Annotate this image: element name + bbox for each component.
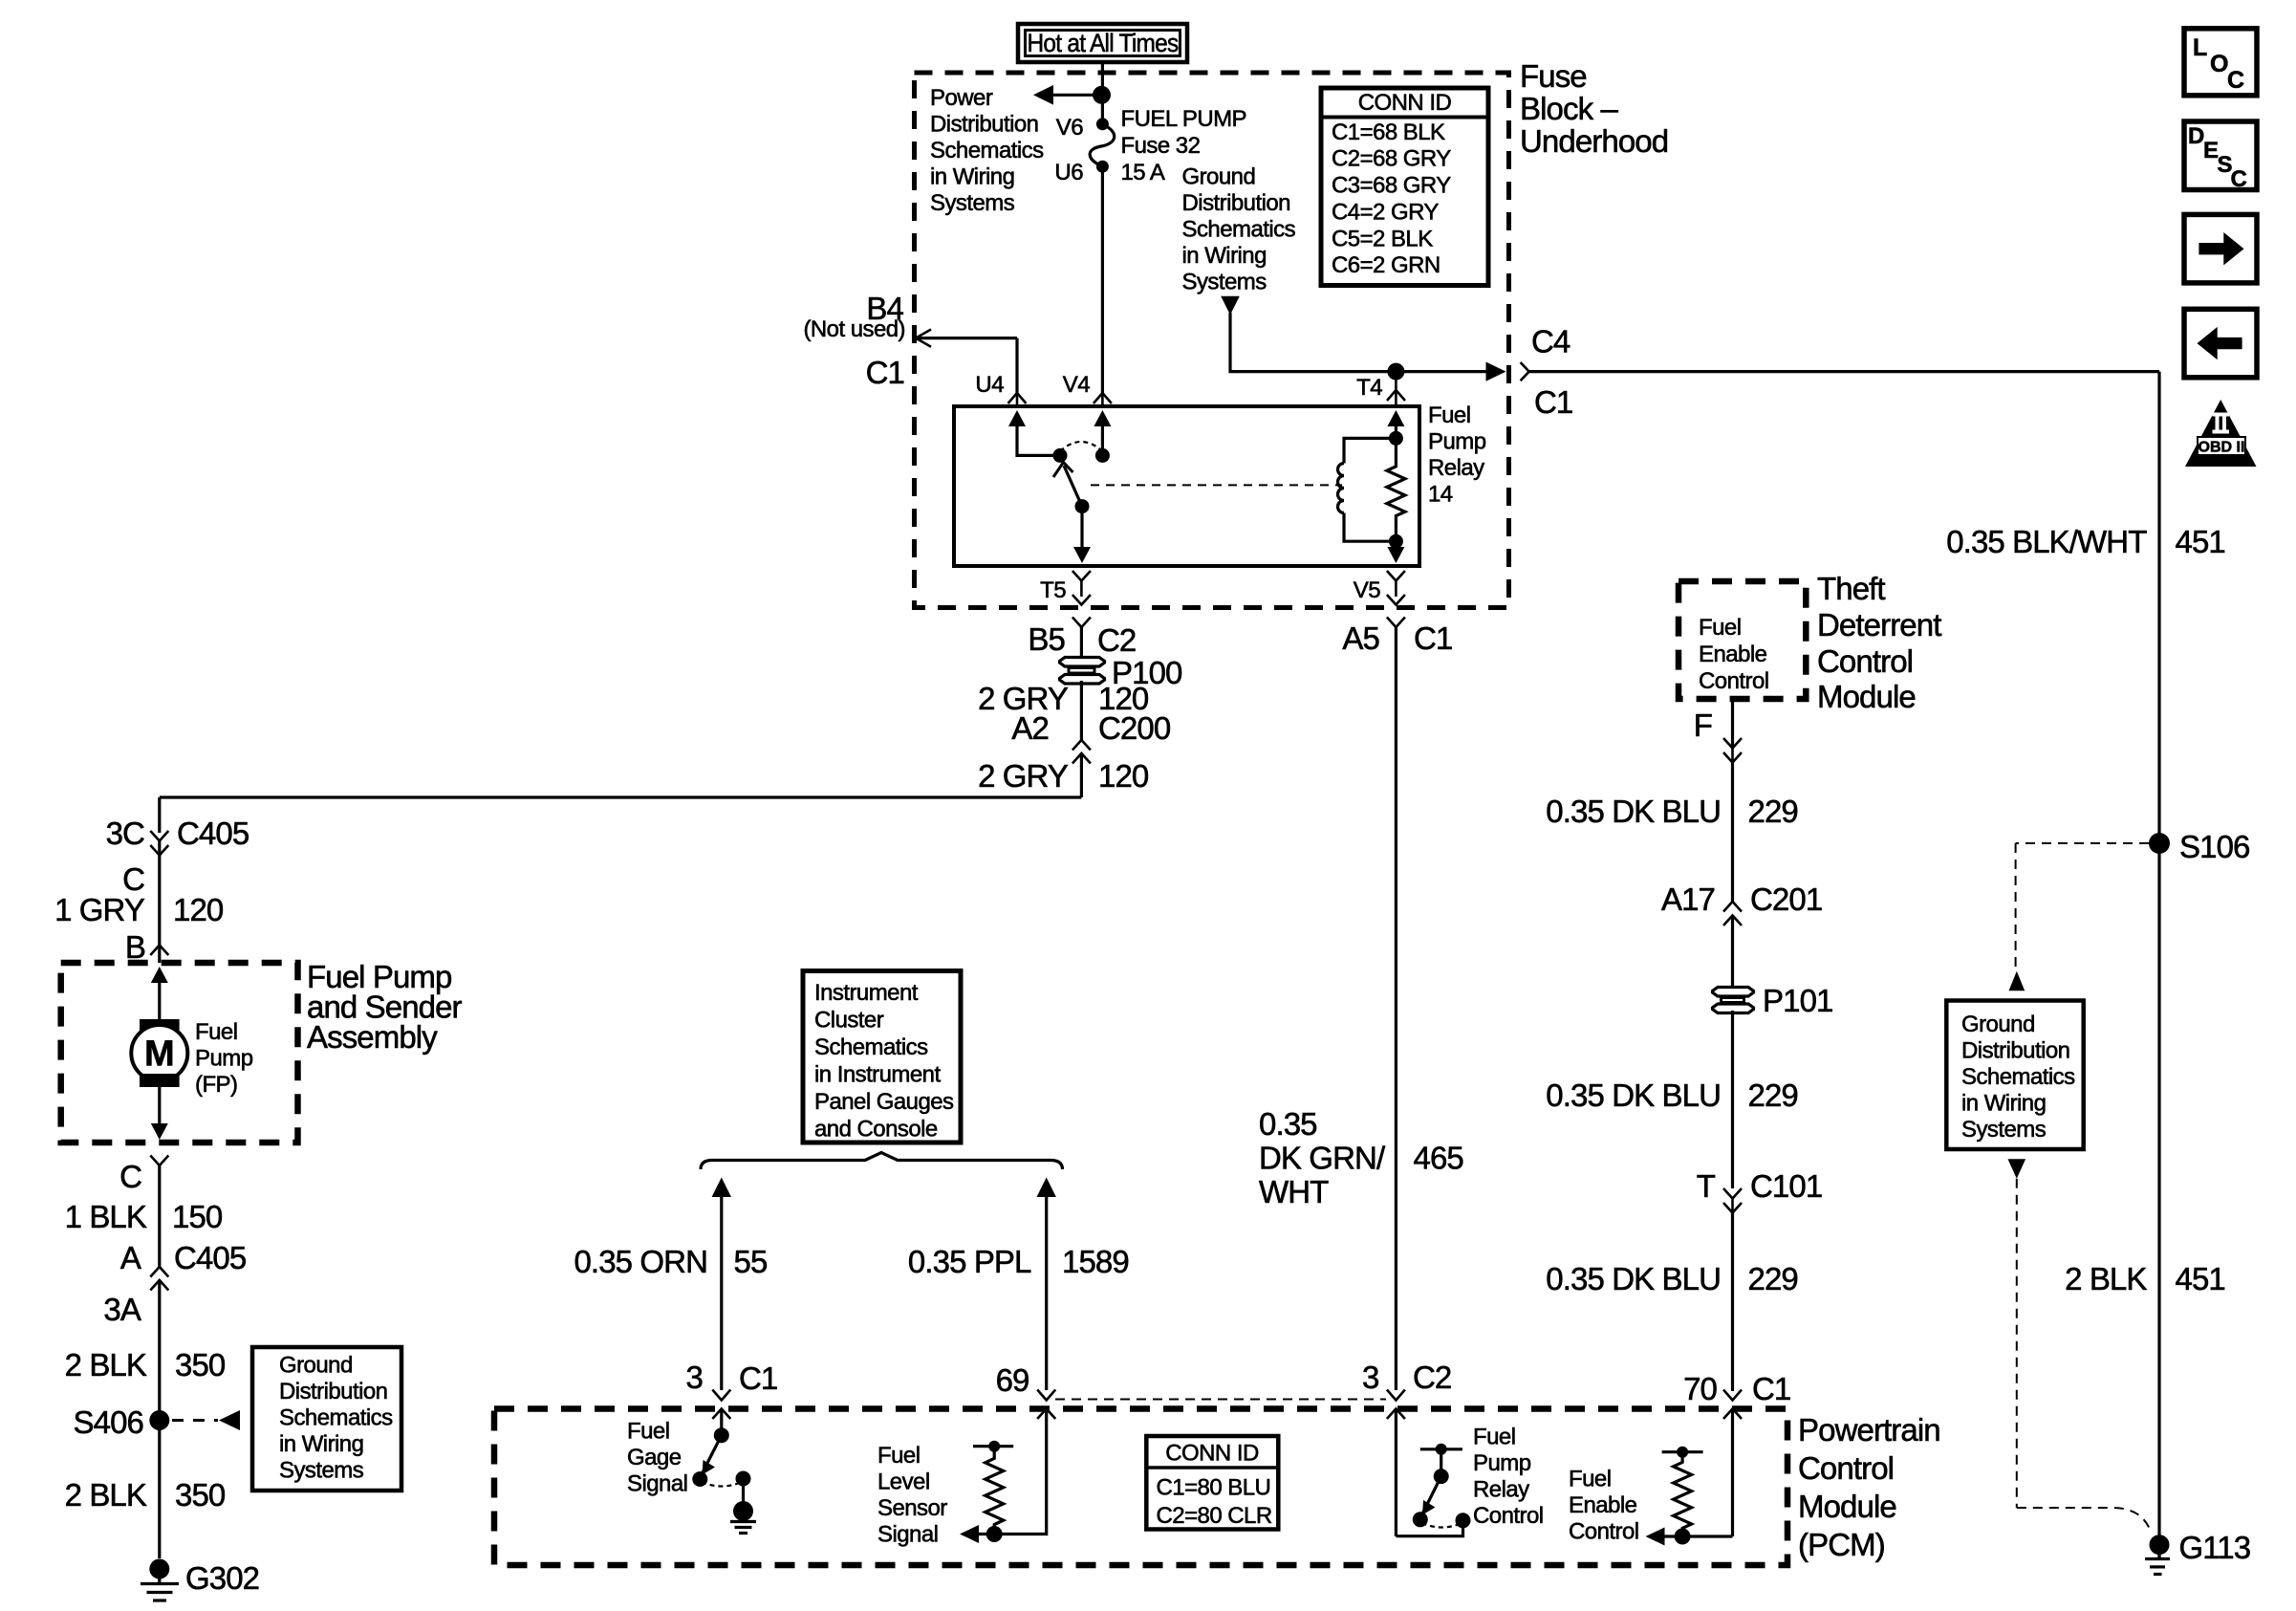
wire 70 pin to fuel enable resistor with left arrow — [1646, 1528, 1733, 1546]
svg-text:Power: Power — [930, 85, 993, 111]
svg-text:WHT: WHT — [1259, 1174, 1329, 1209]
svg-text:Distribution: Distribution — [1961, 1038, 2069, 1064]
svg-text:FUEL PUMP: FUEL PUMP — [1121, 106, 1247, 132]
CONN ID table (PCM) — [1146, 1436, 1278, 1530]
svg-text:0.35 ORN: 0.35 ORN — [574, 1244, 707, 1279]
svg-text:Schematics: Schematics — [279, 1405, 393, 1431]
svg-text:T: T — [1697, 1168, 1716, 1204]
ground symbol inside PCM at fuel gage switch — [730, 1479, 756, 1534]
connector C405 pin 3C/C chevrons — [106, 816, 249, 963]
svg-text:U4: U4 — [975, 372, 1004, 398]
connector C chevron below fuel pump box — [119, 1156, 168, 1268]
svg-text:D: D — [2188, 123, 2204, 149]
svg-text:Schematics: Schematics — [1961, 1064, 2075, 1090]
connector C200 chevrons — [1011, 710, 1170, 797]
svg-text:Systems: Systems — [279, 1458, 364, 1484]
svg-text:L: L — [2193, 34, 2207, 61]
PCM powertrain control module dashed box — [494, 1409, 1787, 1566]
svg-text:P101: P101 — [1763, 983, 1832, 1018]
connector male chevron pin 70 C1 inside PCM — [1723, 1409, 1742, 1537]
svg-text:Signal: Signal — [627, 1471, 687, 1497]
fuel pump and sender assembly dashed box — [61, 963, 298, 1143]
svg-text:G113: G113 — [2179, 1530, 2251, 1565]
svg-text:C1: C1 — [866, 355, 904, 390]
svg-text:Cluster: Cluster — [814, 1008, 884, 1034]
svg-text:Relay: Relay — [1428, 455, 1484, 481]
svg-text:Fuse 32: Fuse 32 — [1121, 133, 1201, 159]
svg-text:C6=2 GRN: C6=2 GRN — [1332, 252, 1440, 278]
svg-text:14: 14 — [1428, 482, 1453, 508]
svg-text:150: 150 — [172, 1199, 223, 1234]
label "Fuel Pump Relay 14" — [1428, 403, 1486, 508]
svg-text:Level: Level — [877, 1469, 930, 1495]
grommet P101 — [1713, 983, 1833, 1018]
connector male chevron pin 3 C1 inside PCM — [712, 1409, 730, 1436]
connector C101 pin T chevrons — [1697, 1168, 1823, 1391]
svg-text:C405: C405 — [177, 816, 249, 851]
svg-text:Control: Control — [1473, 1503, 1544, 1529]
svg-text:V5: V5 — [1354, 577, 1380, 603]
svg-text:C: C — [2231, 166, 2247, 192]
svg-text:451: 451 — [2176, 524, 2225, 559]
svg-text:0.35 BLK/WHT: 0.35 BLK/WHT — [1946, 524, 2147, 559]
icon OBD II triangle — [2185, 400, 2257, 467]
svg-text:Control: Control — [1569, 1519, 1639, 1545]
wire C4 to right column — [1529, 370, 2159, 373]
svg-text:Pump: Pump — [1473, 1450, 1531, 1476]
switch fuel gage signal in PCM — [692, 1427, 750, 1487]
svg-text:Instrument: Instrument — [814, 980, 919, 1006]
ground distribution reference triangle — [1221, 296, 1240, 315]
node relay coil bottom — [1389, 534, 1403, 549]
svg-text:S106: S106 — [2179, 829, 2249, 864]
svg-text:Fuel: Fuel — [627, 1419, 670, 1445]
brace under instrument cluster box — [701, 1153, 1063, 1170]
label box "Ground Distribution Schematics in Wiring Systems" (left) — [252, 1347, 401, 1491]
svg-text:A5: A5 — [1342, 620, 1379, 656]
svg-text:Hot at All Times: Hot at All Times — [1028, 29, 1179, 57]
relay mechanical link dashed — [1091, 484, 1342, 486]
svg-text:C1: C1 — [1534, 384, 1572, 420]
svg-text:0.35 DK BLU: 0.35 DK BLU — [1546, 1261, 1721, 1296]
svg-text:C200: C200 — [1098, 710, 1171, 746]
label "Fuse Block - Underhood" — [1520, 58, 1668, 159]
relay pin V4 internal arrow and NO contact — [1094, 410, 1111, 463]
svg-text:Fuel: Fuel — [1428, 403, 1471, 428]
svg-text:Underhood: Underhood — [1520, 123, 1668, 159]
svg-text:A: A — [120, 1240, 141, 1275]
connector B5/C2 chevron below fuse block — [1028, 618, 1136, 659]
svg-text:15 A: 15 A — [1121, 160, 1165, 185]
thin dashed connector line 69 to C2 — [1055, 1399, 1386, 1401]
svg-text:in Instrument: in Instrument — [814, 1062, 941, 1088]
svg-text:OBD II: OBD II — [2199, 440, 2245, 456]
icon left arrow box — [2184, 309, 2257, 378]
wire P100 to C200 with label 2 GRY 120 — [978, 681, 1149, 740]
svg-text:(FP): (FP) — [195, 1072, 237, 1098]
svg-text:in Wiring: in Wiring — [1182, 243, 1267, 269]
node T4 junction — [1387, 363, 1404, 381]
relay pin T4 internal arrow — [1387, 410, 1404, 426]
connector V4 chevron — [1063, 372, 1112, 406]
motor M fuel pump (FP) — [131, 1019, 252, 1098]
svg-text:C405: C405 — [174, 1240, 246, 1275]
svg-text:Control: Control — [1817, 643, 1913, 679]
svg-text:C2: C2 — [1413, 1360, 1451, 1395]
label "Power Distribution Schematics in Wiring Systems" — [930, 85, 1044, 216]
svg-text:Panel Gauges: Panel Gauges — [814, 1089, 954, 1115]
CONN ID table (fuse block) — [1321, 88, 1488, 286]
svg-text:Fuel: Fuel — [195, 1019, 238, 1045]
svg-text:350: 350 — [175, 1477, 226, 1513]
svg-text:B5: B5 — [1028, 621, 1065, 657]
svg-text:F: F — [1694, 708, 1712, 743]
label box "Instrument Cluster Schematics in Instrument Panel Gauges and Console" — [803, 971, 961, 1143]
connector C4 arrow through fuse block border — [1486, 324, 1573, 421]
label 1 GRY 120 — [54, 892, 224, 927]
svg-text:Fuel: Fuel — [1473, 1425, 1516, 1450]
dashed reference path from ground distribution box to G113 — [2008, 1159, 2152, 1532]
wire A5 to PCM pin 3 C2 — [1395, 627, 1397, 1390]
svg-text:Assembly: Assembly — [307, 1019, 438, 1055]
svg-text:3: 3 — [686, 1360, 703, 1395]
svg-text:C5=2 BLK: C5=2 BLK — [1332, 227, 1433, 252]
svg-text:1 BLK: 1 BLK — [65, 1199, 147, 1234]
svg-text:3: 3 — [1362, 1360, 1378, 1395]
svg-text:in Wiring: in Wiring — [1961, 1091, 2046, 1117]
svg-text:T5: T5 — [1040, 577, 1066, 603]
svg-text:C1: C1 — [1752, 1371, 1790, 1406]
svg-text:in Wiring: in Wiring — [930, 164, 1014, 190]
icon DESC box — [2184, 121, 2257, 192]
svg-text:1589: 1589 — [1062, 1244, 1129, 1279]
label "Powertrain Control Module (PCM)" — [1798, 1412, 1940, 1562]
svg-text:C201: C201 — [1750, 882, 1822, 917]
label 1 BLK 150 — [65, 1199, 223, 1234]
ground distribution reference dashed arrow at S406 — [172, 1410, 240, 1430]
svg-text:C: C — [2227, 67, 2244, 94]
label "Fuel Level Sensor Signal" — [877, 1443, 947, 1548]
wire fuel gage signal 0.35 ORN 55 with arrow to cluster — [574, 1178, 767, 1391]
svg-text:Module: Module — [1817, 679, 1916, 714]
svg-text:C1: C1 — [739, 1361, 777, 1396]
svg-text:Pump: Pump — [195, 1046, 253, 1072]
connector U4 chevron — [975, 372, 1026, 406]
wire triangle down to T4 feed — [1230, 313, 1499, 372]
svg-text:C1=80 BLU: C1=80 BLU — [1157, 1475, 1271, 1501]
svg-text:V4: V4 — [1063, 372, 1090, 398]
svg-text:Systems: Systems — [930, 190, 1015, 216]
label 2 BLK 451 — [2065, 1261, 2225, 1296]
theft deterrent control module dashed box — [1679, 581, 1806, 699]
svg-text:Systems: Systems — [1961, 1117, 2047, 1143]
svg-text:CONN ID: CONN ID — [1358, 90, 1452, 116]
resistor fuel enable control in PCM — [1662, 1447, 1703, 1536]
label "Fuel Enable Control" (theft box) — [1699, 615, 1769, 694]
label 2 BLK 350 (lower) — [65, 1477, 226, 1513]
connector C201 pin A17 chevrons — [1661, 882, 1822, 988]
connector PCM pin 3 C1 chevron — [686, 1360, 778, 1401]
svg-text:G302: G302 — [185, 1560, 259, 1596]
svg-text:(PCM): (PCM) — [1798, 1527, 1885, 1562]
arrow out of fuel pump box — [151, 1087, 168, 1140]
icon LOC box — [2184, 29, 2257, 96]
svg-text:A17: A17 — [1661, 882, 1715, 917]
svg-text:55: 55 — [734, 1244, 768, 1279]
connector T4 chevron into relay — [1356, 372, 1405, 406]
svg-text:C3=68 GRY: C3=68 GRY — [1332, 173, 1451, 199]
label "Fuel Pump and Sender Assembly" — [307, 959, 463, 1055]
svg-text:Enable: Enable — [1569, 1492, 1637, 1518]
node S406 splice — [74, 1404, 170, 1440]
svg-text:Control: Control — [1699, 668, 1769, 694]
svg-text:2 GRY: 2 GRY — [978, 758, 1069, 794]
svg-text:Enable: Enable — [1699, 642, 1767, 667]
connector V5 chevrons at fuse block bottom — [1354, 571, 1405, 605]
svg-text:C4=2 GRY: C4=2 GRY — [1332, 200, 1439, 226]
label 0.35 DK BLU 229 (lower) — [1546, 1261, 1798, 1296]
relay switch blade with arrow — [1053, 463, 1091, 564]
svg-text:Schematics: Schematics — [814, 1034, 928, 1060]
fuse F32 FUEL PUMP 15A — [1054, 106, 1246, 185]
svg-text:Pump: Pump — [1428, 429, 1486, 455]
svg-text:C101: C101 — [1750, 1168, 1822, 1204]
svg-text:465: 465 — [1414, 1141, 1463, 1176]
wire down from 2 GRY feed to C405 — [158, 797, 161, 833]
svg-text:Theft: Theft — [1817, 571, 1885, 606]
connector B chevron at fuel pump assembly — [125, 929, 168, 965]
svg-text:Module: Module — [1798, 1489, 1896, 1524]
svg-text:120: 120 — [173, 892, 224, 927]
ground G113 — [2145, 1530, 2250, 1575]
node power distribution tap with left arrow — [1033, 85, 1111, 105]
svg-text:S406: S406 — [74, 1404, 143, 1440]
svg-text:Schematics: Schematics — [1182, 217, 1296, 243]
wire C200 down and left to fuel pump circuit, label 2 GRY 120 — [160, 758, 1149, 797]
svg-text:DK GRN/: DK GRN/ — [1259, 1141, 1386, 1176]
svg-text:O: O — [2210, 51, 2228, 77]
connector male chevron pin 3 C2 inside PCM — [1387, 1409, 1405, 1536]
connector PCM pin 70 C1 chevron — [1683, 1371, 1790, 1406]
svg-text:M: M — [144, 1034, 175, 1075]
svg-text:Relay: Relay — [1473, 1477, 1529, 1503]
resistor fuel level sensor in PCM — [973, 1441, 1013, 1533]
svg-text:Ground: Ground — [1961, 1012, 2035, 1037]
svg-text:CONN ID: CONN ID — [1165, 1441, 1259, 1467]
svg-text:451: 451 — [2176, 1261, 2225, 1296]
svg-text:C1: C1 — [1414, 620, 1452, 656]
label 2 BLK 350 — [65, 1347, 226, 1382]
svg-text:B: B — [125, 929, 145, 965]
svg-text:Block –: Block – — [1520, 91, 1618, 126]
wire fuse to relay pin V4 — [1101, 166, 1104, 393]
svg-text:229: 229 — [1748, 1078, 1798, 1113]
svg-text:2 BLK: 2 BLK — [2065, 1261, 2147, 1296]
arrow into fuel pump box — [151, 967, 168, 983]
svg-text:Distribution: Distribution — [279, 1379, 387, 1404]
svg-text:C1=68 BLK: C1=68 BLK — [1332, 120, 1445, 145]
wire P101 to C101, label 0.35 DK BLU 229 — [1546, 1011, 1798, 1188]
ground G302 — [141, 1559, 259, 1601]
svg-text:3A: 3A — [103, 1292, 141, 1327]
label "Theft Deterrent Control Module" — [1817, 571, 1941, 714]
connector F chevrons below theft module — [1694, 699, 1742, 902]
connector male chevron pin 69 inside PCM — [1037, 1409, 1055, 1534]
svg-text:Gage: Gage — [627, 1445, 682, 1470]
svg-text:(Not used): (Not used) — [803, 316, 905, 342]
svg-text:Sensor: Sensor — [877, 1495, 947, 1521]
label 0.35 DK GRN/WHT 465 — [1259, 1106, 1463, 1209]
svg-text:Fuel: Fuel — [1699, 615, 1742, 641]
svg-text:in Wiring: in Wiring — [279, 1431, 363, 1457]
svg-text:U6: U6 — [1054, 160, 1083, 185]
connector B4 (not used) open arrow — [803, 291, 1017, 393]
svg-text:0.35 DK BLU: 0.35 DK BLU — [1546, 794, 1721, 829]
label "Fuel Enable Control" (PCM) — [1569, 1467, 1639, 1545]
label "Ground Distribution Schematics in Wiring Systems" (top) — [1182, 164, 1296, 295]
svg-text:and Console: and Console — [814, 1117, 938, 1143]
svg-text:Signal: Signal — [877, 1522, 938, 1548]
wire from Hot box into fuse block — [1101, 62, 1104, 123]
svg-text:Ground: Ground — [279, 1353, 353, 1379]
connector PCM pin 69 chevron — [996, 1362, 1056, 1401]
label 0.35 DK BLU 229 (upper) — [1546, 794, 1798, 829]
connector A5/C1 chevron below fuse block — [1342, 618, 1452, 657]
svg-text:3C: 3C — [106, 816, 144, 851]
svg-text:C4: C4 — [1531, 324, 1570, 359]
svg-text:Fuse: Fuse — [1520, 58, 1587, 94]
svg-text:T4: T4 — [1356, 375, 1382, 401]
node relay coil top — [1389, 431, 1403, 446]
svg-text:229: 229 — [1748, 1261, 1798, 1296]
label box "Ground Distribution Schematics in Wiring Systems" (right) — [1946, 1001, 2083, 1150]
wire 69 pin to sensor with left arrow — [960, 1525, 1047, 1543]
grommet P100 — [1060, 655, 1183, 690]
connector T5 chevrons at fuse block bottom — [1040, 571, 1091, 605]
svg-text:Systems: Systems — [1182, 270, 1267, 295]
svg-text:2 BLK: 2 BLK — [65, 1347, 147, 1382]
relay resistor R1 — [1387, 438, 1405, 541]
svg-text:C2=68 GRY: C2=68 GRY — [1332, 146, 1451, 172]
svg-text:A2: A2 — [1011, 710, 1049, 746]
wire right column 451 down to G113 — [2157, 372, 2160, 1558]
relay coil L1 — [1338, 438, 1397, 541]
svg-text:Fuel: Fuel — [1569, 1467, 1612, 1492]
svg-text:70: 70 — [1683, 1371, 1717, 1406]
label "Fuel Gage Signal" — [627, 1419, 687, 1497]
label 0.35 BLK/WHT 451 — [1946, 524, 2225, 559]
svg-text:Distribution: Distribution — [1182, 190, 1290, 216]
svg-text:C: C — [119, 1159, 141, 1194]
svg-text:120: 120 — [1098, 758, 1149, 794]
relay pin V5 internal arrow — [1387, 541, 1404, 563]
label 3 C2 at PCM — [1362, 1360, 1451, 1401]
fuse block - underhood dashed box — [915, 73, 1509, 608]
svg-text:0.35 DK BLU: 0.35 DK BLU — [1546, 1078, 1721, 1113]
svg-text:Schematics: Schematics — [930, 138, 1044, 163]
relay pin U4 internal arrow and wire to pivot — [1008, 410, 1068, 463]
svg-text:Distribution: Distribution — [930, 112, 1038, 138]
svg-text:350: 350 — [175, 1347, 226, 1382]
label "Fuel Pump Relay Control" — [1473, 1425, 1544, 1530]
svg-text:0.35: 0.35 — [1259, 1106, 1317, 1142]
connector C405 pin A/3A chevrons — [103, 1240, 246, 1558]
svg-text:Fuel: Fuel — [877, 1443, 921, 1469]
svg-text:2 BLK: 2 BLK — [65, 1477, 147, 1513]
node S106 splice — [2149, 829, 2249, 864]
switch fuel pump relay control in PCM — [1396, 1444, 1470, 1536]
svg-text:C2: C2 — [1097, 622, 1136, 658]
svg-text:Ground: Ground — [1182, 164, 1256, 190]
svg-text:69: 69 — [996, 1362, 1029, 1398]
relay K1 fuel pump relay box — [954, 406, 1419, 566]
svg-text:1 GRY: 1 GRY — [54, 892, 145, 927]
svg-text:C2=80 CLR: C2=80 CLR — [1157, 1503, 1272, 1529]
dashed reference path from S106 to ground distribution box — [2009, 843, 2150, 991]
icon right arrow box — [2184, 214, 2257, 283]
relay switch dashed arc — [1060, 442, 1102, 451]
svg-text:Powertrain: Powertrain — [1798, 1412, 1940, 1448]
svg-text:Deterrent: Deterrent — [1817, 607, 1941, 642]
label "Hot at All Times" box — [1018, 24, 1187, 62]
wire fuel level sensor signal 0.35 PPL 1589 with arrow to cluster — [908, 1178, 1129, 1391]
svg-text:Control: Control — [1798, 1450, 1894, 1486]
svg-text:0.35 PPL: 0.35 PPL — [908, 1244, 1031, 1279]
svg-text:229: 229 — [1748, 794, 1798, 829]
svg-text:V6: V6 — [1056, 115, 1083, 141]
